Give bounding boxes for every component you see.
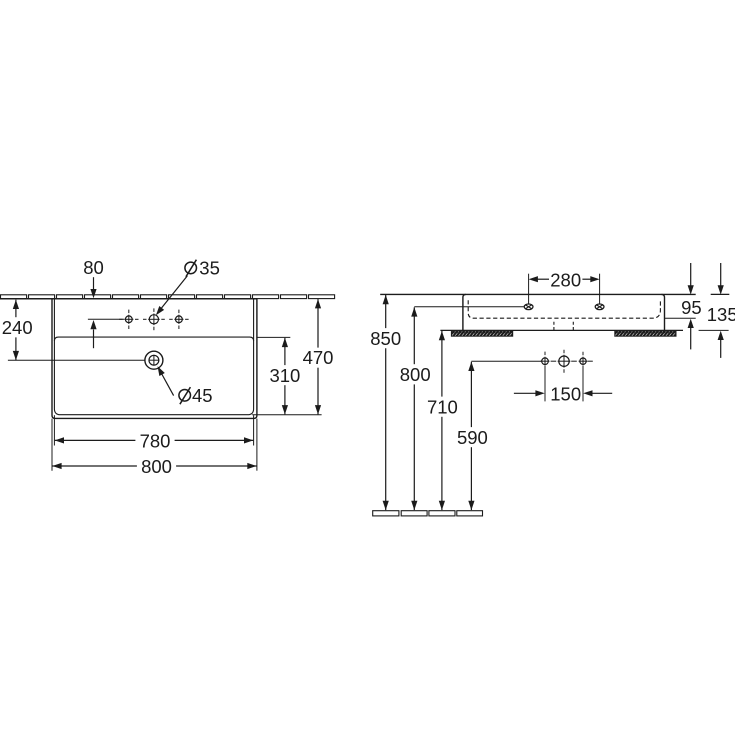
svg-text:35: 35 bbox=[199, 258, 220, 279]
svg-text:310: 310 bbox=[269, 365, 300, 386]
svg-text:280: 280 bbox=[550, 269, 581, 290]
svg-text:135: 135 bbox=[707, 304, 735, 325]
svg-text:780: 780 bbox=[140, 430, 171, 451]
svg-text:800: 800 bbox=[400, 364, 431, 385]
svg-text:800: 800 bbox=[141, 456, 172, 477]
svg-text:150: 150 bbox=[550, 384, 581, 405]
svg-text:470: 470 bbox=[303, 347, 334, 368]
svg-text:95: 95 bbox=[681, 297, 702, 318]
svg-text:590: 590 bbox=[457, 427, 488, 448]
svg-text:240: 240 bbox=[2, 317, 33, 338]
svg-text:45: 45 bbox=[192, 385, 213, 406]
svg-text:710: 710 bbox=[427, 396, 458, 417]
svg-text:850: 850 bbox=[370, 328, 401, 349]
svg-text:80: 80 bbox=[83, 257, 104, 278]
